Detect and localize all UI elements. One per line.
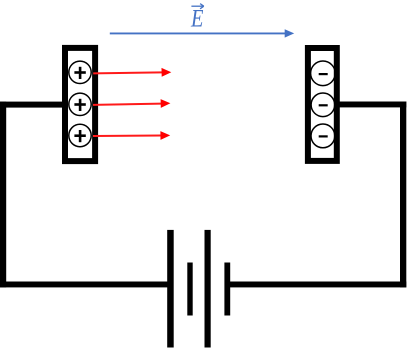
- wire: right plate to right rail: [340, 102, 407, 108]
- wire: left plate to left rail: [0, 102, 63, 108]
- capacitor left plate border: [65, 48, 95, 161]
- capacitor right plate border: [308, 48, 337, 161]
- negative charge 2: [311, 93, 335, 117]
- capacitor left plate (positive): [65, 48, 95, 161]
- field line arrow 3: [93, 131, 170, 140]
- field line arrow 2: [93, 99, 170, 108]
- field line arrow 1: [93, 68, 171, 77]
- E field arrow: [110, 29, 294, 37]
- wire: bottom left: [0, 282, 171, 288]
- negative charge 3: [311, 124, 335, 148]
- battery B1 long plate (left cell): [167, 230, 174, 348]
- wire: bottom right: [227, 282, 406, 288]
- positive charge 3: [69, 124, 91, 146]
- capacitor right plate (negative): [308, 48, 337, 161]
- positive charge 2: [69, 93, 91, 115]
- wire: right rail: [400, 102, 406, 288]
- battery B1 short plate (right cell): [224, 263, 230, 316]
- negative charge 1: [311, 61, 336, 86]
- wire: left rail: [0, 102, 6, 288]
- positive charge 1: [69, 61, 91, 83]
- E field label: [190, 4, 204, 32]
- battery B1 short plate (left cell): [187, 263, 192, 316]
- battery B1 long plate (right cell): [205, 230, 211, 348]
